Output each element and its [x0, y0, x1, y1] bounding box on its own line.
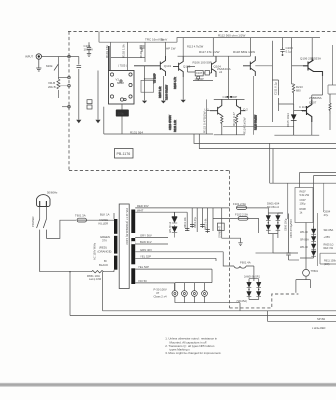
svg-text:R117 47k 1/2W: R117 47k 1/2W	[199, 50, 220, 54]
wire left drop	[103, 107, 105, 134]
resistor R651 zigzag	[92, 271, 104, 273]
secondary lead 40V	[135, 251, 223, 253]
lamp VIO feed	[174, 283, 176, 291]
dashed chassis boundary mid horizontal	[69, 170, 230, 172]
wire Q107 base	[294, 110, 302, 112]
capacitor C501	[77, 65, 82, 67]
bridge2 D610	[247, 292, 252, 297]
wire F601 out	[249, 266, 254, 281]
transformer T601 secondary winding 2	[131, 238, 135, 264]
diode D651 inline	[172, 212, 177, 226]
resistor R108 box	[205, 71, 210, 76]
node: board pin 2	[68, 76, 71, 79]
svg-text:680: 680	[296, 89, 301, 93]
svg-text:V1: V1	[116, 78, 120, 82]
socket pin 1	[110, 73, 113, 76]
svg-text:GRY 36V: GRY 36V	[140, 234, 152, 238]
socket pin 6	[129, 95, 132, 98]
svg-text:C211 0.1μ: C211 0.1μ	[274, 82, 278, 95]
svg-text:SR-05A x4: SR-05A x4	[267, 206, 280, 209]
svg-text:POWER: POWER	[31, 216, 35, 227]
wire pin3	[58, 85, 67, 87]
wire: B+ rail right	[177, 38, 320, 43]
input jack J1	[36, 54, 41, 59]
svg-text:2xWD-30 SR1: 2xWD-30 SR1	[244, 276, 261, 279]
svg-text:R103 22k: R103 22k	[139, 45, 143, 58]
wire caps bottom	[256, 253, 300, 260]
svg-text:C606 100μ: C606 100μ	[285, 218, 288, 231]
svg-text:16V/50P: 16V/50P	[195, 78, 205, 81]
wire diode column	[300, 226, 314, 258]
svg-text:C113 470/6V: C113 470/6V	[168, 115, 172, 130]
wire speaker corner	[267, 311, 336, 322]
wire C203 feed	[282, 38, 284, 47]
wire long feedback 1	[194, 134, 336, 143]
transformer T601 secondary winding 1	[131, 210, 135, 234]
switch contact	[54, 64, 58, 71]
secondary lead 36V	[135, 237, 168, 239]
bridge D602	[266, 225, 271, 230]
wire right edge out	[332, 45, 334, 85]
bridge D603	[276, 216, 281, 221]
svg-text:47μ: 47μ	[324, 213, 329, 217]
diode D607	[311, 244, 316, 249]
emitter resistor R123	[221, 116, 223, 135]
svg-text:R121 2.2k: R121 2.2k	[173, 119, 177, 132]
wire bus under amp	[104, 133, 213, 135]
wire emitter join right	[223, 125, 294, 127]
pilot lamp PL1	[172, 291, 178, 297]
svg-text:(ORANGE): (ORANGE)	[98, 250, 112, 254]
lamp top bus	[175, 269, 212, 291]
wire input to board	[42, 56, 79, 58]
svg-text:R602 5.6k: R602 5.6k	[205, 218, 208, 230]
transformer T601 primary winding (black bar)	[114, 213, 117, 272]
svg-text:GRN 40V: GRN 40V	[140, 248, 152, 252]
wire pin2	[58, 77, 67, 79]
socket pin 5	[110, 95, 113, 98]
pilot lamp PL2	[182, 291, 188, 297]
svg-text:P.B-1177 (POWER-B) 120V: P.B-1177 (POWER-B) 120V	[125, 208, 129, 245]
dashed chassis boundary top	[68, 31, 336, 33]
junction dot pin4	[68, 106, 69, 107]
svg-text:Q103: Q103	[183, 64, 191, 68]
wire F102 out	[248, 213, 283, 233]
label box PB-1176	[115, 149, 134, 159]
diode D605	[311, 229, 316, 234]
wire breaker	[305, 223, 307, 280]
svg-text:Lamp 10W: Lamp 10W	[89, 278, 102, 281]
wire rail drop Q104	[212, 38, 214, 56]
fuse F102	[238, 217, 248, 221]
emitter resistor R124	[235, 116, 237, 135]
svg-text:R109 56k/2W: R109 56k/2W	[165, 84, 168, 100]
lamp bottom bus	[175, 296, 240, 310]
secondary lead RED 1	[135, 207, 229, 209]
svg-text:R105 4.7k: R105 4.7k	[173, 76, 177, 89]
capacitor C104 (dark bar)	[108, 46, 110, 71]
svg-text:R607: R607	[300, 190, 307, 194]
resistor R213 vertical zigzag	[292, 84, 294, 95]
resistor VR1 20k zigzag	[57, 79, 60, 89]
scan band bottom	[0, 383, 336, 387]
resistor R105 vertical w/ ground	[97, 71, 99, 120]
wire base feed left	[207, 99, 211, 134]
secondary lead 52V	[135, 257, 216, 259]
svg-text:R122 0.47Ω/2W: R122 0.47Ω/2W	[203, 111, 207, 133]
svg-text:100μ: 100μ	[118, 112, 125, 116]
wire driver top bus	[214, 98, 245, 100]
svg-text:WD-30 x2: WD-30 x2	[169, 221, 172, 233]
resistor R1 620k (vertical line with switch)	[57, 57, 59, 99]
socket pin 3	[110, 83, 113, 86]
wire 78.9 link	[145, 79, 154, 84]
diode D652 inline	[172, 227, 177, 238]
svg-text:0.1μ: 0.1μ	[286, 50, 292, 54]
wire driver bottom bus	[214, 134, 245, 136]
svg-text:BLW 31V: BLW 31V	[140, 240, 152, 244]
supply filter verticals	[187, 208, 213, 233]
svg-text:C107: C107	[196, 71, 203, 75]
svg-text:620k: 620k	[46, 64, 53, 68]
wire right step	[296, 280, 311, 293]
svg-text:Q107: Q107	[309, 101, 317, 105]
svg-text:C601 47μ: C601 47μ	[194, 217, 197, 228]
ground (R104)	[76, 120, 81, 123]
wire drop x70	[69, 272, 71, 316]
svg-text:F601 4A: F601 4A	[240, 261, 251, 265]
resistor R101 vertical	[110, 42, 112, 70]
svg-text:R102 1.5k: R102 1.5k	[122, 44, 126, 58]
svg-text:R107 1.8k: R107 1.8k	[159, 86, 162, 98]
svg-text:PB-1176: PB-1176	[117, 152, 131, 156]
wire bridge out right	[273, 234, 298, 253]
wire Q101 collector to rail	[165, 42, 167, 56]
wire Q103 emitter drop	[182, 77, 184, 100]
wire drop x102.5	[102, 272, 104, 311]
secondary lead 31V	[135, 243, 168, 245]
svg-text:VIO 50: VIO 50	[138, 279, 147, 283]
junction dots bridge	[268, 222, 269, 223]
wire box link	[188, 66, 214, 80]
svg-text:Class 2 x4: Class 2 x4	[154, 295, 168, 299]
diode D608	[311, 251, 316, 256]
svg-text:Q101: Q101	[164, 64, 172, 68]
output transistor Q106	[303, 58, 323, 77]
svg-text:100μ: 100μ	[300, 202, 306, 206]
wire drop 273	[270, 149, 336, 184]
regulator box	[295, 188, 313, 223]
svg-text:C-2: C-2	[243, 108, 248, 112]
wire right rail verticals	[271, 41, 273, 122]
ground (R105)	[95, 120, 100, 123]
capacitor C203	[280, 47, 284, 54]
dashed chassis boundary bottom step	[230, 294, 299, 308]
svg-text:R601 10k: R601 10k	[184, 217, 187, 228]
svg-text:(SR-05A): (SR-05A)	[237, 300, 248, 303]
bottom bus 1	[103, 310, 336, 312]
svg-text:HP 1W: HP 1W	[166, 47, 176, 51]
filter cap C605	[286, 214, 291, 261]
wire mid join	[279, 104, 294, 111]
node: board pin 3	[68, 84, 71, 87]
transistor Q104	[212, 56, 217, 77]
svg-text:R118 680k 1/2W: R118 680k 1/2W	[233, 50, 255, 54]
wire Q101 emitter drop	[162, 76, 164, 100]
svg-text:R101 15k: R101 15k	[105, 45, 109, 58]
svg-text:R113 4.7k/2W: R113 4.7k/2W	[187, 45, 204, 49]
diode D105 (big)	[291, 114, 297, 120]
wire drop 269.7	[269, 143, 271, 183]
pilot lamp PL4	[202, 291, 208, 297]
wire right 172.5	[300, 173, 336, 188]
wire D651 top	[174, 212, 176, 216]
wire F601 rail	[216, 252, 231, 266]
junction dot x70	[69, 271, 70, 272]
fuse F651	[77, 218, 87, 222]
svg-text:F102 2.5A: F102 2.5A	[235, 212, 248, 216]
transistor Q103	[173, 56, 183, 77]
bridge2 D609	[247, 282, 252, 287]
output transistor Q107	[302, 100, 312, 123]
wire Q103 to rail	[182, 38, 184, 56]
svg-text:INPUT: INPUT	[25, 55, 33, 59]
driver Q105	[210, 99, 222, 115]
wire Q106 base feed	[292, 65, 303, 67]
bridge D601	[266, 216, 271, 221]
component pair R/C	[87, 100, 92, 104]
diode D606	[311, 237, 316, 242]
wire F102 rail	[213, 217, 238, 219]
socket pin 7	[120, 98, 123, 101]
wire output bus bottom	[274, 122, 319, 135]
ground (R103b)	[142, 101, 147, 104]
ground (input jack)	[36, 60, 41, 72]
svg-text:L-1: L-1	[205, 108, 210, 112]
wire Q106 emitter chain	[312, 72, 323, 100]
wire fuse to transformer	[87, 219, 115, 221]
bridge2 wiring	[249, 276, 259, 300]
secondary lead VIO	[135, 282, 174, 284]
resistor R102 vertical	[126, 42, 128, 70]
svg-text:R131 564: R131 564	[130, 131, 143, 135]
AC plug P601	[37, 195, 51, 207]
secondary lead RED 2	[135, 211, 187, 213]
svg-text:C607: C607	[300, 198, 307, 202]
node: board pin 4	[68, 105, 71, 108]
wire bus Q104-Q108 top	[178, 55, 251, 57]
wire Q108 out	[255, 65, 272, 67]
svg-text:R608: R608	[300, 207, 307, 211]
wire long feedback 2	[199, 134, 336, 149]
capacitor C110	[227, 96, 233, 98]
capacitor C107 box	[195, 71, 203, 76]
junction 144.5	[144, 78, 145, 79]
wire 291.6-293.5 link	[292, 84, 294, 104]
svg-text:37V: 37V	[102, 239, 107, 243]
ground dot C203	[282, 54, 284, 56]
pilot lamp PL3	[192, 291, 198, 297]
svg-text:6BM8: 6BM8	[117, 81, 124, 85]
wire AC bottom	[40, 271, 114, 273]
capacitor C211 vertical	[278, 86, 280, 104]
svg-text:C605 4700μ/50V: C605 4700μ/50V	[290, 219, 293, 238]
svg-text:L white-RED: L white-RED	[312, 327, 326, 330]
resistor R104 vertical w/ ground	[78, 57, 80, 120]
wire fuse loop	[46, 220, 76, 238]
plug prong L	[39, 201, 41, 207]
svg-text:WD-30: WD-30	[300, 231, 308, 234]
fuse F101	[237, 206, 247, 210]
svg-text:Q106 2SD553A: Q106 2SD553A	[300, 57, 321, 61]
wire drop 287.7	[287, 183, 289, 219]
wire plug leads	[40, 207, 47, 220]
wire R103b drop	[144, 66, 146, 101]
node: board pin 1	[68, 55, 71, 58]
secondary lead YEL	[135, 268, 212, 270]
wire Q108 emitter drop	[253, 76, 255, 135]
svg-text:3. More might be changed for i: 3. More might be changed for improvement…	[165, 351, 221, 355]
wire grn/wht drop	[221, 208, 223, 238]
driver Q106	[237, 99, 246, 115]
small box CN601	[218, 223, 225, 230]
svg-text:R123 0.47: R123 0.47	[232, 112, 236, 126]
bridge2 D611	[256, 282, 261, 287]
ground (PSU)	[238, 243, 242, 246]
switch SW601a	[37, 219, 40, 272]
label plate (BOTTOM VIEW) dark	[116, 110, 129, 117]
svg-text:x2: x2	[219, 70, 223, 74]
svg-text:YEL 52P: YEL 52P	[140, 254, 151, 258]
bottom bus 2	[70, 315, 336, 317]
svg-text:F101 2.5A: F101 2.5A	[233, 202, 246, 206]
svg-text:R125 56k/2W: R125 56k/2W	[255, 114, 258, 130]
wire to ground	[222, 238, 241, 242]
wire vert 291.6	[291, 38, 293, 84]
svg-text:R112 560 ohm 1/2W: R112 560 ohm 1/2W	[218, 34, 245, 38]
bridge2 D612	[256, 292, 261, 297]
svg-text:SP 8Ω: SP 8Ω	[317, 317, 325, 321]
wire plate bus	[111, 56, 145, 58]
svg-text:BLACK: BLACK	[99, 263, 108, 267]
svg-text:50/60Hz: 50/60Hz	[47, 191, 58, 195]
junction dots bridge2	[248, 289, 249, 290]
ground (Q101 emitter)	[161, 101, 166, 104]
dashed chassis boundary left	[68, 32, 70, 171]
wire vert 312.2	[311, 38, 313, 58]
svg-text:C110 100P: C110 100P	[223, 95, 238, 99]
svg-text:T601 3A: T601 3A	[75, 214, 86, 218]
transistor Q108	[243, 56, 255, 76]
wire right edge box	[328, 85, 336, 94]
svg-text:C3 100P: C3 100P	[154, 73, 157, 83]
svg-text:R651 10Ω: R651 10Ω	[87, 274, 100, 278]
socket center	[120, 80, 122, 82]
switch SW601b	[43, 219, 46, 238]
wire: B+ rail left	[99, 32, 177, 43]
wire socket to ground label	[121, 104, 123, 134]
svg-text:SR-05A: SR-05A	[324, 228, 334, 232]
wire C211 top	[272, 80, 278, 86]
wire rail drop Q108	[250, 38, 252, 57]
dashed chassis boundary mid vertical	[229, 171, 231, 308]
plug prong R	[45, 201, 47, 207]
svg-text:20k B: 20k B	[48, 85, 56, 89]
resistor R103 vertical	[144, 42, 146, 62]
svg-text:RED 36V: RED 36V	[137, 204, 149, 208]
wire R215 down	[329, 114, 331, 130]
notes text block	[165, 337, 221, 356]
svg-text:(1W): (1W)	[324, 263, 330, 266]
socket pins extra right	[124, 98, 126, 100]
svg-text:GRN/WHT: GRN/WHT	[219, 226, 222, 238]
svg-text:KILLER: KILLER	[99, 222, 109, 226]
svg-text:YEL 52P: YEL 52P	[138, 265, 149, 269]
wire right branch 175	[314, 176, 336, 229]
filter component caps	[185, 225, 210, 232]
svg-text:100/6V: 100/6V	[84, 48, 94, 52]
svg-text:D105 10E1: D105 10E1	[286, 113, 290, 127]
capacitor C101	[87, 42, 91, 53]
transistor Q101	[134, 56, 166, 76]
svg-text:WD-30: WD-30	[300, 246, 308, 249]
svg-text:TRC 16mV/3μ: TRC 16mV/3μ	[145, 38, 164, 42]
bridge wiring	[268, 208, 283, 234]
bridge D604	[276, 225, 281, 230]
wire right edge mid	[320, 253, 336, 264]
socket pin 2	[129, 73, 132, 76]
wire pin4	[62, 106, 68, 108]
svg-text:R106 100 50P: R106 100 50P	[193, 61, 212, 65]
box tone network	[141, 80, 154, 92]
ground (Q103 emitter)	[181, 100, 186, 103]
fuse F601	[231, 266, 249, 268]
svg-text:AC 120V 60Hz: AC 120V 60Hz	[93, 242, 97, 260]
svg-text:REF 1W: REF 1W	[324, 247, 334, 250]
transformer T601 secondary winding 3	[131, 268, 135, 284]
capacitor C102	[140, 46, 145, 52]
svg-text:+35V: +35V	[324, 235, 331, 239]
svg-text:WHT: WHT	[137, 208, 144, 212]
thermal breaker TH601	[303, 269, 310, 276]
wire secondary right	[317, 213, 319, 266]
svg-text:BLK 1A: BLK 1A	[100, 213, 110, 217]
resistor R215 right edge	[329, 94, 331, 114]
svg-text:5.6k 2W: 5.6k 2W	[300, 193, 310, 197]
ground (C101)	[87, 54, 91, 57]
wire F101 out	[247, 207, 269, 209]
wire drop 323.7	[323, 183, 325, 212]
socket pin 4	[129, 83, 132, 86]
svg-text:22P: 22P	[302, 109, 307, 113]
svg-text:R124 1k/2W: R124 1k/2W	[243, 117, 247, 134]
svg-text:SR-05A: SR-05A	[300, 239, 309, 242]
transformer PCB strip PB-1177	[119, 204, 129, 289]
svg-text:2SB605A: 2SB605A	[309, 96, 322, 100]
svg-text:( 7025 ): ( 7025 )	[118, 63, 127, 67]
tube socket V101 outline	[109, 71, 135, 105]
trimmer VR102	[197, 76, 200, 79]
svg-text:TH601: TH601	[311, 270, 319, 273]
wire bias drop	[228, 56, 230, 99]
